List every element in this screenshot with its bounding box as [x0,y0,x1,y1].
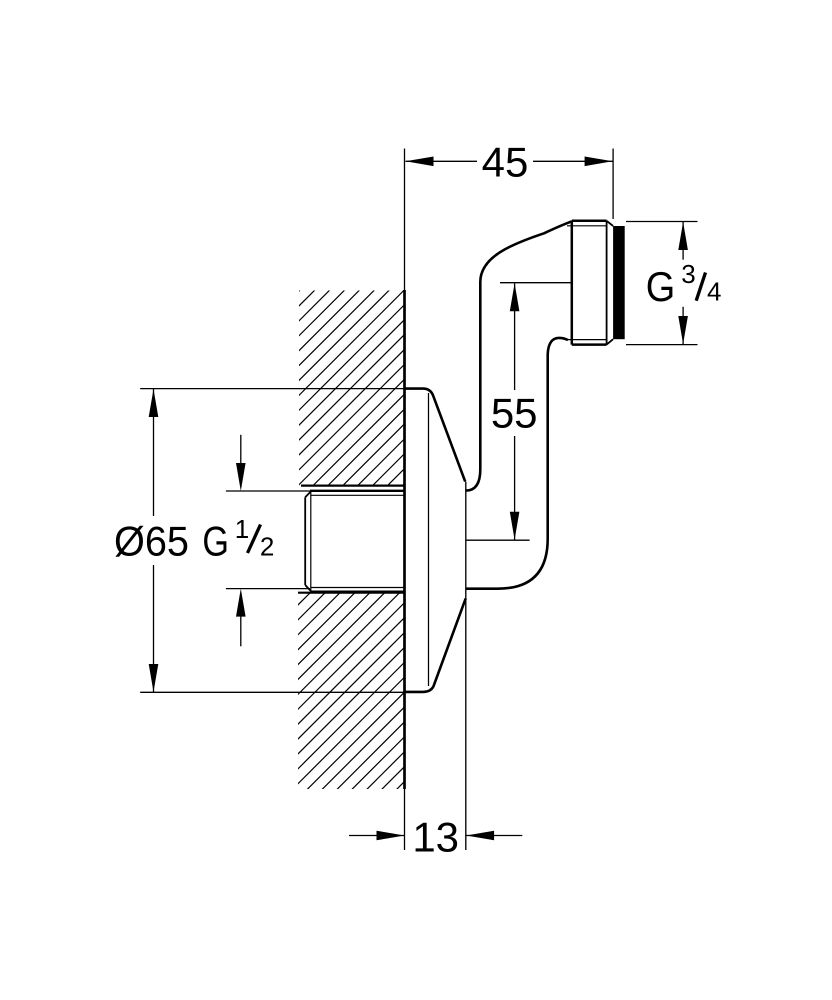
G3/4 threaded end [567,221,613,345]
svg-text:1: 1 [235,514,249,544]
O65 dim [140,388,404,390]
G3/4 top / bottom [678,222,688,250]
svg-text:G: G [202,518,229,565]
wall hatching [0,200,832,800]
45 left / right [406,157,434,167]
13 right-point / left-point [377,831,405,841]
G1/2 down / up [236,463,246,491]
dimension texts [114,139,675,861]
55 dim [500,282,572,284]
13 dim [349,835,405,837]
svg-text:13: 13 [412,814,459,861]
G1/2 pointers [226,490,310,492]
55 top / bottom [510,283,520,311]
svg-text:45: 45 [482,139,529,186]
flange (escutcheon) [405,389,466,850]
G1/2 male thread spigot [305,491,404,592]
svg-text:2: 2 [260,532,274,562]
O65 top / bottom [149,389,159,417]
black end band [613,226,625,339]
svg-text:3: 3 [681,259,695,289]
svg-text:55: 55 [491,389,538,436]
G3/4 dim [626,221,698,223]
arrowheads [149,157,688,841]
wall hole top edge [301,485,404,487]
45 dim [612,149,614,220]
svg-text:4: 4 [707,276,721,306]
svg-text:Ø65: Ø65 [114,518,189,565]
svg-text:G: G [646,263,676,310]
wall face line [404,149,406,851]
pipe S-body outline [466,221,572,588]
wall hole bottom edge [298,592,404,594]
